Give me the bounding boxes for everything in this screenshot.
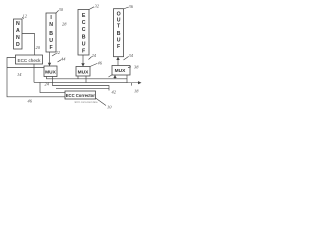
svg-text:B: B xyxy=(117,31,121,37)
wire tick numeral 46 mux2 xyxy=(90,64,97,67)
svg-text:ECC Corrector: ECC Corrector xyxy=(66,93,95,98)
svg-text:C: C xyxy=(82,27,86,33)
wire bus B4 xyxy=(56,88,109,90)
svg-text:MUX: MUX xyxy=(78,70,89,76)
wire MUX U3 drop to B1 xyxy=(114,75,116,79)
wire bus B2 with output arrow xyxy=(34,81,139,83)
wire MUX U3 to OUT BUF xyxy=(117,57,119,66)
wire IN BUF to MUX U1 xyxy=(49,52,51,66)
wire tick numeral 24 xyxy=(89,57,92,60)
wire tick numeral 32 xyxy=(89,7,94,10)
svg-text:U: U xyxy=(82,42,86,48)
wire MUX U2 drop to B1 xyxy=(77,76,79,79)
wire tick numeral 34b xyxy=(128,66,131,69)
wire ECC BUF to MUX U2 xyxy=(82,55,84,66)
wire B5 to ECC Corrector xyxy=(40,82,65,92)
block ECC check xyxy=(16,55,43,64)
wire MUX U2 drop to B2 xyxy=(85,76,87,83)
svg-text:F: F xyxy=(50,45,53,51)
wire diagonal from ECC Corrector xyxy=(96,98,107,106)
wire ECC check bottom drop xyxy=(33,64,35,82)
block IN BUF xyxy=(46,13,56,52)
wire ECC check left to bottom bus xyxy=(7,58,65,97)
svg-text:N: N xyxy=(16,21,20,27)
block OUT BUF xyxy=(114,9,124,57)
arrowhead into OUT BUF xyxy=(116,57,119,60)
block NAND xyxy=(14,19,23,49)
wire tick numeral 34 xyxy=(124,57,129,61)
svg-text:MUX: MUX xyxy=(115,68,126,74)
wire tick near arrow xyxy=(131,83,133,86)
wire tick numeral 30 xyxy=(56,11,59,14)
svg-text:U: U xyxy=(49,38,53,44)
svg-text:U: U xyxy=(117,38,121,44)
svg-text:A: A xyxy=(16,28,20,34)
svg-text:ECC corrected data: ECC corrected data xyxy=(75,100,98,104)
svg-text:N: N xyxy=(16,35,20,41)
wire MUX U3 drop to B2 xyxy=(126,75,128,83)
wire NAND to ECC check xyxy=(22,34,35,56)
wire tick numeral 44 xyxy=(58,60,62,62)
svg-text:F: F xyxy=(82,49,85,55)
wire bus B3 xyxy=(53,77,110,91)
arrowhead data out right xyxy=(138,81,142,84)
svg-text:MUX: MUX xyxy=(45,70,56,76)
block ECC BUF xyxy=(78,10,89,56)
svg-text:B: B xyxy=(49,31,53,37)
wire bus B1 xyxy=(47,77,128,79)
svg-text:ECC check: ECC check xyxy=(18,58,42,63)
wire tick numeral 22 xyxy=(52,54,56,56)
wire left branch to MUX U1 xyxy=(7,67,44,69)
svg-text:B: B xyxy=(82,35,86,41)
svg-text:F: F xyxy=(117,44,120,50)
svg-text:N: N xyxy=(49,22,53,28)
svg-text:E: E xyxy=(82,13,86,19)
wire tick numeral 36 xyxy=(124,7,129,9)
arrowhead into MUX U2 xyxy=(81,63,84,66)
wire tick numeral 12 xyxy=(22,17,23,19)
svg-text:D: D xyxy=(16,42,20,48)
block MUX U3 xyxy=(112,66,130,76)
block MUX U1 xyxy=(44,66,57,77)
svg-text:C: C xyxy=(82,20,86,26)
block MUX U2 xyxy=(76,67,90,77)
arrowhead into MUX U3 bottom xyxy=(113,75,116,78)
arrowhead into MUX U1 xyxy=(48,63,51,66)
block ECC Corrector xyxy=(65,91,96,99)
wire tick mux3 bottom-left xyxy=(109,75,113,78)
